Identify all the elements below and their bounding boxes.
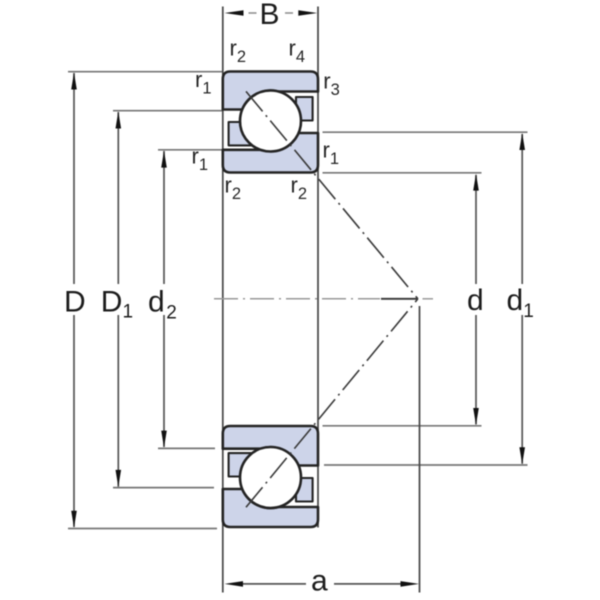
dimension line D1 bbox=[117, 112, 119, 487]
svg-text:d: d bbox=[467, 284, 484, 317]
svg-text:r2: r2 bbox=[291, 173, 308, 203]
svg-text:r2: r2 bbox=[230, 36, 247, 66]
contact angle line bottom bbox=[246, 299, 418, 508]
extension line D top bbox=[68, 71, 223, 73]
dimension line D bbox=[73, 73, 75, 527]
ball top bbox=[240, 91, 301, 152]
svg-text:d1: d1 bbox=[507, 284, 534, 322]
svg-text:r3: r3 bbox=[323, 69, 340, 99]
centerline axis dash-dot bbox=[214, 298, 380, 300]
extension line d1 bottom bbox=[324, 464, 528, 466]
dimension line d2 bbox=[163, 151, 165, 447]
centerline axis dark segment at apex bbox=[381, 298, 418, 300]
bearing section bottom (mirror) bbox=[223, 426, 318, 527]
dimension line d1 bbox=[521, 134, 523, 464]
inner ring top bbox=[223, 133, 318, 173]
extension line d top bbox=[323, 172, 482, 174]
vertical silhouette/extension line left face bbox=[222, 7, 224, 593]
outer ring top bbox=[223, 72, 318, 110]
dimension a line and arrows bbox=[242, 583, 401, 585]
svg-text:r2: r2 bbox=[225, 173, 242, 203]
extension line d bottom bbox=[323, 425, 482, 427]
inner ring bottom bbox=[223, 426, 318, 466]
extension line D1 top bbox=[113, 110, 223, 112]
svg-text:r4: r4 bbox=[289, 36, 306, 66]
ball bottom bbox=[240, 447, 301, 508]
extension line d1 top bbox=[323, 131, 528, 133]
extension line d2 top bbox=[158, 149, 223, 151]
cage tab right bottom bbox=[296, 478, 313, 502]
dimension B arrows and dashes bbox=[225, 10, 244, 15]
dimension line d bbox=[475, 175, 477, 425]
svg-text:a: a bbox=[311, 565, 328, 598]
extension line a right (apex) bbox=[419, 306, 421, 593]
svg-text:D1: D1 bbox=[101, 286, 133, 323]
extension line D bottom bbox=[68, 528, 217, 530]
svg-text:r1: r1 bbox=[192, 144, 209, 174]
outer ring bottom bbox=[223, 489, 318, 527]
cage block left bbox=[229, 122, 252, 145]
svg-text:d2: d2 bbox=[148, 286, 177, 324]
svg-text:B: B bbox=[260, 0, 280, 31]
contact angle line top bbox=[246, 91, 418, 298]
bearing section top bbox=[223, 72, 318, 173]
centerline axis dash right of apex bbox=[423, 298, 434, 300]
svg-text:D: D bbox=[64, 286, 86, 319]
vertical silhouette/extension line right face bbox=[317, 7, 319, 528]
cage block left bottom bbox=[229, 453, 252, 476]
extension line D1 bottom bbox=[113, 487, 214, 489]
extension line d2 bottom bbox=[158, 447, 215, 449]
cage tab right bbox=[296, 97, 313, 121]
svg-text:r1: r1 bbox=[323, 138, 340, 168]
